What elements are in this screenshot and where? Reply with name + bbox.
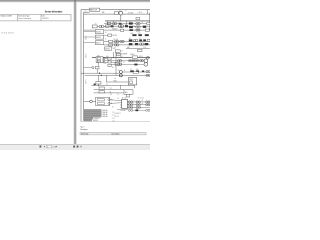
- relay KC1: [130, 29, 133, 31]
- wire RB1 to U1 b: [110, 102, 120, 105]
- horizontal wires y73/y75: [81, 72, 119, 74]
- motor MT2: [144, 62, 148, 66]
- drop bus2 to rowA: [113, 21, 115, 23]
- svg-text:U1: U1: [117, 98, 119, 100]
- connector X7: [133, 39, 135, 41]
- switch S2: [145, 29, 149, 31]
- svg-text:RLY 4: RLY 4: [129, 79, 133, 81]
- wire RB1 to U1 a: [110, 99, 120, 102]
- wire drop d2: [125, 21, 127, 25]
- scattered wire labels: [105, 21, 146, 108]
- svg-text:C2:3: C2:3: [112, 118, 115, 120]
- svg-text:C2:2: C2:2: [112, 115, 115, 117]
- fuse FD2: [108, 61, 111, 63]
- connector XD: [146, 74, 148, 76]
- wire harness trunk: [83, 12, 85, 121]
- connector X8: [139, 43, 141, 45]
- wire below switch: [97, 63, 99, 67]
- vertical drop v1: [113, 52, 115, 58]
- wire F3 feed: [104, 34, 108, 36]
- sensor relay box SN1: [128, 78, 136, 85]
- connector X5: [114, 40, 116, 42]
- svg-text:C6: C6: [117, 94, 119, 96]
- relay K5: [132, 34, 136, 36]
- svg-text:GND B1: GND B1: [94, 118, 99, 120]
- connector XC1: [136, 29, 138, 31]
- switch S1: [147, 23, 150, 25]
- svg-text:C5:1: C5:1: [118, 70, 121, 72]
- connector XB2: [117, 63, 119, 65]
- svg-text:K1: K1: [129, 21, 131, 23]
- svg-text:TS 40: TS 40: [113, 80, 117, 82]
- junction J1: [99, 73, 100, 74]
- connector XA: [140, 60, 142, 62]
- relay KR4: [136, 109, 139, 111]
- svg-text:C8:1 C8:2: C8:1 C8:2: [138, 98, 144, 100]
- label box P1: [96, 82, 101, 85]
- svg-text:15: 15: [105, 38, 107, 40]
- switch box SB1: [115, 63, 120, 66]
- svg-text:20 46 R, 304 E-3: 20 46 R, 304 E-3: [1, 32, 14, 34]
- terminals RB1: [108, 99, 110, 101]
- starter box L2: [92, 25, 97, 28]
- label box on y73 wire: [133, 72, 138, 74]
- wire to motor: [111, 60, 144, 62]
- wire row4: [133, 109, 146, 111]
- svg-text:C4: C4: [123, 61, 125, 63]
- row 2 connectors: [127, 104, 150, 106]
- ground label G01: [84, 109, 101, 111]
- U1 pins left: [120, 100, 122, 102]
- wire rowB: [104, 25, 150, 27]
- connector X6: [120, 40, 122, 42]
- fuse FD1: [108, 58, 111, 60]
- svg-text:M4: M4: [133, 42, 135, 44]
- sensor feed wire: [105, 75, 107, 82]
- connector XB1: [117, 60, 119, 62]
- box N3: [137, 49, 142, 51]
- wire bus2: [105, 20, 150, 22]
- label wire row 1: [92, 84, 135, 86]
- wire y72 right: [122, 71, 150, 73]
- svg-text:B2: B2: [110, 91, 112, 93]
- wire trunk to XIG: [84, 67, 92, 69]
- svg-text:ECU B: ECU B: [96, 37, 101, 39]
- wire: [104, 44, 150, 46]
- vertical drop v3: [97, 75, 99, 86]
- relay K7: [145, 34, 149, 36]
- fuse FD3: [108, 64, 111, 66]
- svg-text:K8: K8: [129, 38, 131, 40]
- extra labels mid band: [114, 48, 123, 81]
- fuse F5: [109, 44, 113, 46]
- svg-text:R2: R2: [134, 26, 136, 28]
- wire L2 to X1: [97, 26, 99, 28]
- box N2: [115, 50, 120, 52]
- ground label G06: [84, 119, 92, 121]
- toolbar page field: [46, 145, 51, 148]
- wire below U1: [117, 109, 128, 111]
- module M5: [145, 43, 149, 45]
- svg-text:B+: B+: [85, 11, 87, 13]
- svg-text:C9 C10: C9 C10: [115, 116, 120, 118]
- label box P3: [99, 91, 104, 93]
- relay KC: [142, 71, 144, 73]
- toolbar icon: next: [56, 146, 57, 148]
- title box T1 on top border: [90, 8, 100, 11]
- relay K9: [129, 43, 133, 45]
- svg-text:C8: C8: [142, 103, 144, 105]
- fuse F4: [109, 40, 113, 42]
- connector X3: [118, 25, 121, 28]
- box N1: [105, 47, 112, 50]
- connector X5b: [114, 44, 116, 46]
- breaker box BC1: [120, 29, 123, 31]
- row 4 connectors: [128, 109, 130, 111]
- top viewer edge band: [0, 0, 150, 2]
- diode D2: [143, 39, 146, 41]
- svg-text:K4 RLY: K4 RLY: [112, 35, 117, 37]
- stack box M1: [95, 30, 103, 34]
- toolbar icon: menu: [40, 146, 42, 148]
- svg-text:C0: C0: [125, 10, 127, 12]
- connector edge row4: [146, 109, 148, 111]
- connector circle XIG: [92, 67, 94, 69]
- wire generator to bus2: [120, 15, 122, 21]
- frame left border: [80, 10, 82, 122]
- connector box SB2: [117, 53, 121, 55]
- svg-text:ST: ST: [95, 24, 97, 26]
- breaker box BA1: [108, 22, 111, 24]
- legend table header: [80, 132, 146, 135]
- ground label G03: [84, 113, 101, 115]
- control unit U1: [122, 99, 128, 108]
- svg-text:GND1: GND1: [139, 56, 143, 58]
- label box on bus: [132, 56, 137, 58]
- svg-text:D1: D1: [139, 38, 141, 40]
- svg-text:P1: P1: [106, 84, 108, 86]
- svg-text:P2: P2: [110, 88, 112, 90]
- connector X2: [136, 22, 138, 24]
- fuse FC: [136, 60, 139, 62]
- svg-text:C2:6: C2:6: [143, 47, 146, 49]
- wire drop d1: [106, 21, 108, 25]
- connector stack XS: [119, 71, 122, 74]
- svg-text:K10: K10: [136, 69, 139, 71]
- connector X4: [136, 26, 138, 28]
- wire cluster bottom drop: [96, 69, 98, 73]
- label above bus2: [136, 17, 140, 19]
- svg-text:F5 7.5: F5 7.5: [114, 43, 118, 45]
- svg-text:SW 01: SW 01: [105, 48, 110, 50]
- svg-text:1/24/2023: 1/24/2023: [42, 18, 49, 20]
- svg-text:30: 30: [105, 32, 107, 34]
- toolbar icon: zoom-in: [77, 146, 79, 148]
- svg-text:C1:4 BLK/WHT: C1:4 BLK/WHT: [118, 53, 128, 55]
- svg-text:C8: C8: [142, 100, 144, 102]
- box S3: [147, 39, 150, 41]
- toolbar icon: zoom-out: [73, 146, 75, 148]
- connector XA1: [112, 22, 114, 24]
- ground label G02: [84, 111, 101, 113]
- toolbar icon: fit: [80, 146, 82, 148]
- wire vertical x147.5: [147, 10, 149, 14]
- wires stack to trunk: [84, 31, 96, 33]
- svg-text:S5: S5: [142, 22, 144, 24]
- junction box MB: [124, 90, 133, 95]
- ignition switch SW2 block: [96, 57, 103, 63]
- svg-text:C3: C3: [125, 24, 127, 26]
- svg-text:C2:4: C2:4: [112, 121, 115, 123]
- wire row1 corner down: [134, 85, 136, 88]
- vertical drop v2: [115, 52, 117, 75]
- relay KA: [130, 70, 134, 72]
- svg-text:B+: B+: [115, 78, 117, 80]
- fuse F2: [105, 25, 109, 27]
- stack box M3: [95, 41, 103, 45]
- label box P2: [99, 87, 104, 89]
- frame bottom border: [81, 121, 150, 123]
- row 1 connectors: [127, 101, 150, 103]
- aux box below switch: [95, 66, 99, 69]
- wire to motor2: [111, 63, 144, 65]
- connector X9: [147, 56, 150, 59]
- wire row C y30: [84, 29, 150, 31]
- stack box M2: [95, 35, 103, 39]
- diode D1: [139, 39, 142, 41]
- svg-text:IGN: IGN: [97, 55, 99, 57]
- relay K1: [129, 22, 133, 24]
- svg-text:P3: P3: [110, 94, 112, 96]
- wire top bus stub: [84, 11, 90, 13]
- generator G1 circle: [119, 11, 123, 15]
- connector XC: [146, 70, 148, 72]
- main bus y57.7: [92, 57, 150, 59]
- svg-text:GND 2: GND 2: [130, 54, 134, 56]
- svg-text:GND B2: GND B2: [93, 120, 98, 122]
- wire rowA left: [104, 23, 150, 25]
- wire top bus: [84, 13, 150, 15]
- module M4: [135, 43, 138, 45]
- svg-text:C2:1: C2:1: [112, 112, 115, 114]
- svg-text:K9: K9: [130, 69, 132, 71]
- left page info table: [0, 14, 71, 21]
- svg-text:RED: RED: [127, 47, 130, 49]
- wire right edge vertical: [149, 13, 151, 30]
- relay KB0: [111, 25, 114, 27]
- row 3 connectors: [127, 106, 150, 108]
- wires from switch: [105, 57, 108, 59]
- svg-text:Model(s): 2046R: Model(s): 2046R: [1, 16, 13, 18]
- ground label G04: [84, 115, 101, 117]
- wire y48.7: [126, 48, 150, 50]
- motor MT1: [144, 59, 148, 63]
- relay KD: [134, 64, 137, 66]
- fuse FB: [132, 60, 135, 62]
- svg-text:PTO: PTO: [138, 33, 141, 35]
- frame top border: [81, 9, 150, 11]
- module M0: [143, 26, 146, 28]
- connector X1 circles: [99, 25, 102, 28]
- svg-text:Wiring diagram: Wiring diagram: [81, 129, 88, 131]
- svg-text:BLK: BLK: [120, 56, 123, 58]
- fuse FA: [129, 60, 132, 62]
- wires sub-box to U1: [122, 97, 124, 99]
- relay block RB1: [96, 97, 110, 106]
- relay KA1: [119, 23, 122, 25]
- relay KB: [136, 70, 139, 72]
- junction sub-box: [126, 94, 129, 97]
- fuse F3: [108, 34, 112, 37]
- svg-text:12V GEN: 12V GEN: [128, 13, 134, 15]
- connector XH: [90, 100, 93, 103]
- battery box BT1: [115, 12, 119, 15]
- junction J2: [101, 75, 102, 76]
- switch terminals: [103, 57, 105, 59]
- wire trunk to XH: [84, 100, 90, 102]
- svg-text:B- GND 12: B- GND 12: [115, 113, 122, 115]
- relay K6: [138, 34, 142, 36]
- label wire row 2: [94, 88, 124, 90]
- relay K3: [129, 26, 133, 28]
- diode on row 1: [94, 84, 96, 86]
- relay K2: [125, 25, 128, 27]
- toolbar icon: prev: [44, 146, 45, 148]
- svg-text:Figure 7: Figure 7: [81, 127, 85, 129]
- svg-text:Service Information: Service Information: [45, 9, 63, 13]
- page gap shadow: [73, 2, 76, 145]
- ground label G05: [84, 117, 93, 119]
- label wire row 3: [94, 92, 124, 94]
- relay K8: [129, 39, 133, 41]
- mesh vertical: [120, 85, 122, 89]
- wire: [104, 41, 150, 43]
